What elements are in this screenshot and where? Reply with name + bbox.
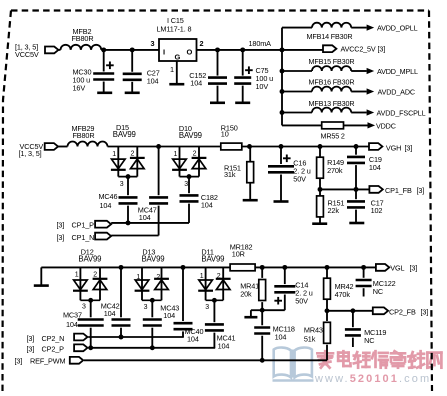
svg-text:3: 3 — [205, 304, 209, 311]
svg-text:104: 104 — [66, 320, 78, 329]
diode D12 — [73, 248, 107, 311]
capacitor MC41 — [205, 324, 236, 350]
wire MR55 to arrow — [344, 124, 368, 126]
capacitor C152 — [189, 50, 227, 103]
svg-text:2: 2 — [217, 273, 221, 280]
connector VCC5V (top) — [45, 47, 58, 54]
connector AVCC2_5V — [323, 45, 385, 54]
junction MFB13 — [280, 110, 285, 115]
connector CP1_N — [57, 233, 112, 242]
capacitor C17 — [347, 189, 384, 223]
capacitor MC118 — [254, 324, 295, 341]
svg-text:AVDD_FSCPLL: AVDD_FSCPLL — [377, 109, 426, 118]
svg-text:1: 1 — [136, 274, 140, 281]
junction C75 — [240, 47, 245, 52]
arrow AVDD_MPLL — [367, 67, 418, 76]
svg-text:MR55 2: MR55 2 — [321, 131, 345, 140]
svg-text:BAV99: BAV99 — [78, 255, 101, 264]
connector CP1_P — [57, 221, 112, 230]
arrow AVDD_ADC — [367, 88, 415, 97]
wire branch AVDD_FSCPLL — [282, 112, 312, 114]
wire bus to AVCC2_5V — [282, 49, 323, 51]
svg-text:AVDD_ADC: AVDD_ADC — [378, 88, 415, 97]
diode D15 — [111, 123, 145, 188]
svg-text:104: 104 — [104, 309, 116, 318]
wire rail to MC42 — [120, 267, 122, 317]
svg-text:10: 10 — [221, 129, 229, 138]
svg-text:FB80R: FB80R — [72, 34, 94, 43]
svg-text:104: 104 — [190, 78, 202, 87]
svg-text:O: O — [187, 48, 193, 57]
junction MFB16 — [280, 89, 285, 94]
connector REF_PWM — [15, 357, 84, 366]
svg-text:AVDD_OPLL: AVDD_OPLL — [377, 24, 418, 33]
svg-text:104: 104 — [139, 213, 151, 222]
ground left — [34, 267, 49, 285]
junction MC119 top — [350, 308, 355, 313]
junction MC122 top — [361, 265, 366, 270]
wire MFB29 to R150 — [108, 146, 221, 148]
svg-text:2: 2 — [131, 150, 135, 157]
wire CP1_FB rail — [320, 188, 369, 190]
connector VGH — [369, 143, 412, 152]
capacitor MC30 — [73, 50, 115, 93]
capacitor MC47 — [138, 197, 168, 221]
capacitor MC46 — [99, 192, 138, 210]
wire R150 to VGH — [242, 146, 369, 148]
svg-text:50V: 50V — [293, 175, 306, 184]
svg-text:NC: NC — [373, 287, 383, 296]
wire MC47 to CP1_N — [158, 206, 160, 236]
inductor MFB2 — [61, 27, 102, 50]
junction C19-CP1_FB — [354, 187, 359, 192]
wire MC118 to bottom rail — [261, 336, 263, 361]
wire CP1_P rail — [111, 222, 189, 224]
svg-text:1: 1 — [112, 151, 116, 158]
wire D13 pin3 to MC43 — [151, 300, 153, 317]
svg-text:270k: 270k — [327, 166, 343, 175]
capacitor MC37 — [63, 310, 104, 329]
inductor MFB14 — [307, 23, 353, 41]
svg-text:AVDD_MPLL: AVDD_MPLL — [377, 67, 418, 76]
arrow AVDD_OPLL — [367, 24, 418, 33]
svg-text:MR43: MR43 — [304, 325, 323, 334]
svg-text:[3]: [3] — [417, 186, 425, 195]
junction R150 out — [247, 144, 252, 149]
label 180mA — [249, 39, 272, 48]
svg-text:VGL: VGL — [390, 263, 404, 272]
svg-text:[3]: [3] — [15, 357, 23, 366]
wire MR182 to VGL — [255, 266, 376, 268]
capacitor MC119 NC — [345, 311, 387, 347]
junction MC40 top — [181, 265, 186, 270]
wire tag to MFB29 — [58, 146, 67, 148]
wire tag to coil MFB2 — [58, 49, 60, 51]
capacitor MC122 NC — [356, 267, 396, 296]
svg-text:MFB14 FB30R: MFB14 FB30R — [307, 32, 353, 41]
connector VGL — [376, 263, 417, 272]
junction C14 top — [282, 265, 287, 270]
svg-text:2: 2 — [156, 274, 160, 281]
svg-text:3: 3 — [120, 181, 124, 188]
svg-text:1: 1 — [170, 65, 174, 74]
inductor MFB16 — [309, 78, 355, 92]
capacitor C16 — [268, 147, 311, 202]
op-amp U IC15 LM117-1.8 — [151, 16, 204, 74]
svg-text:16V: 16V — [73, 84, 86, 93]
arrow AVDD_FSCPLL — [367, 109, 426, 118]
wire IC15 out — [197, 49, 283, 51]
watermark 520101.com — [273, 348, 442, 385]
junction MR42-CP2_FB — [325, 308, 330, 313]
wire MFB14 to arrow — [351, 27, 366, 29]
svg-text:[1, 3, 5]: [1, 3, 5] — [19, 149, 42, 158]
junction MR42 top — [325, 265, 330, 270]
connector CP2_N — [27, 334, 88, 343]
wire branch AVDD_OPLL — [282, 27, 312, 29]
svg-text:104: 104 — [201, 200, 213, 209]
svg-text:3: 3 — [144, 304, 148, 311]
svg-text:[3]: [3] — [378, 45, 386, 54]
wire CP2_N rail — [88, 336, 121, 338]
resistor MR41 — [240, 267, 265, 310]
svg-text:CP1_P: CP1_P — [72, 221, 95, 230]
svg-text:50V: 50V — [295, 296, 308, 305]
svg-text:MC37: MC37 — [63, 310, 82, 319]
svg-text:[3]: [3] — [27, 344, 35, 353]
junction MC118-bottom — [260, 358, 265, 363]
junction R149 — [318, 144, 323, 149]
svg-text:AVCC2_5V: AVCC2_5V — [341, 45, 376, 54]
resistor MR42 — [324, 267, 354, 310]
diode D10 — [172, 124, 206, 188]
wire branch VDDC — [282, 124, 322, 126]
resistor MR55 — [321, 122, 345, 140]
svg-text:3: 3 — [151, 39, 155, 48]
svg-text:MFB16 FB30R: MFB16 FB30R — [309, 78, 355, 87]
wire branch AVDD_ADC — [282, 91, 312, 93]
svg-text:[3]: [3] — [27, 334, 35, 343]
svg-text:[3]: [3] — [57, 233, 65, 242]
junction MR41 bottom — [260, 308, 265, 313]
svg-text:[3]: [3] — [410, 263, 418, 272]
svg-text:FB80R: FB80R — [73, 131, 95, 140]
svg-text:104: 104 — [218, 341, 230, 350]
wire D11 pin3 to MC41 — [213, 300, 215, 322]
wire CP2_P rail — [88, 347, 152, 349]
svg-text:LM117-1. 8: LM117-1. 8 — [157, 25, 192, 34]
svg-text:1: 1 — [174, 151, 178, 158]
svg-text:REF_PWM: REF_PWM — [30, 357, 66, 366]
inductor MFB15 — [309, 57, 355, 71]
inductor MFB29 — [68, 124, 108, 147]
wire C182 to CP1_P corner — [188, 204, 190, 223]
svg-text:BAV99: BAV99 — [179, 131, 202, 140]
node VCC5V label (top) — [15, 43, 39, 60]
svg-text:104: 104 — [163, 311, 175, 320]
capacitor MC40 — [174, 323, 204, 343]
capacitor C27 — [123, 50, 160, 93]
resistor R151 31k — [224, 147, 258, 201]
resistor MR43 — [304, 311, 331, 361]
capacitor MC43 — [143, 303, 179, 325]
wire MFB16 to arrow — [351, 91, 366, 93]
svg-text:MFB15 FB30R: MFB15 FB30R — [309, 57, 355, 66]
wire MC42 to CP2_N — [120, 328, 122, 337]
wire MC37 to CP2_P — [90, 328, 92, 348]
junction bus-main — [280, 47, 285, 52]
svg-text:10V: 10V — [256, 82, 269, 91]
wire output bus vertical — [281, 28, 283, 126]
wire REF_PWM rail — [84, 359, 327, 361]
junction C152 — [215, 47, 220, 52]
svg-text:VDDC: VDDC — [376, 122, 396, 131]
junction MC43-CP2_P — [150, 345, 155, 350]
junction C16 — [279, 144, 284, 149]
svg-text:2: 2 — [93, 272, 97, 279]
svg-text:CP1_FB: CP1_FB — [385, 186, 412, 195]
connector VCC5V (mid) — [45, 143, 58, 150]
wire MFB15 to arrow — [351, 70, 366, 72]
svg-text:180mA: 180mA — [249, 39, 272, 48]
svg-text:10R: 10R — [232, 249, 245, 258]
svg-text:20k: 20k — [240, 289, 252, 298]
wire D10 pin3 to C182 — [188, 177, 190, 194]
wire D15 pin3 to MC46 — [127, 177, 129, 196]
wire MC40 to CP2_N corner — [121, 331, 184, 337]
svg-text:51k: 51k — [304, 334, 316, 343]
svg-text:CP2_FB: CP2_FB — [389, 307, 416, 316]
connector CP1_FB — [369, 186, 424, 195]
capacitor C182 — [180, 193, 218, 210]
wire CP2_FB rail — [327, 310, 373, 312]
ground MR41 — [244, 316, 257, 319]
svg-text:www.520101.com: www.520101.com — [314, 373, 431, 385]
resistor R151 22k — [312, 189, 344, 223]
svg-text:CP2_N: CP2_N — [42, 334, 65, 343]
junction MFB15 — [280, 69, 285, 74]
svg-text:BAV99: BAV99 — [113, 130, 136, 139]
wire MC41 to CP2_P corner — [152, 333, 215, 348]
capacitor C19 — [347, 147, 382, 190]
svg-text:BAV99: BAV99 — [201, 255, 224, 264]
resistor R149 — [317, 147, 344, 190]
capacitor C75 — [234, 50, 273, 103]
wire main to MC47 — [158, 147, 160, 196]
svg-text:22k: 22k — [328, 206, 340, 215]
capacitor MC42 — [101, 301, 131, 325]
junction MC47 top — [156, 144, 161, 149]
wire VGL rail left — [41, 266, 230, 268]
arrow VDDC — [368, 122, 396, 131]
svg-text:VGH: VGH — [386, 143, 401, 152]
svg-text:2: 2 — [200, 39, 204, 48]
svg-text:470k: 470k — [335, 290, 351, 299]
wire MR41-MC118 — [261, 310, 263, 325]
svg-text:[3]: [3] — [405, 143, 413, 152]
wire branch AVDD_MPLL — [282, 70, 312, 72]
junction C19 — [354, 144, 359, 149]
svg-text:104: 104 — [100, 201, 112, 210]
svg-text:CP2_P: CP2_P — [42, 344, 65, 353]
diode D11 — [198, 248, 230, 312]
junction MC46-CP1_P — [126, 220, 131, 225]
junction MC30 — [101, 47, 106, 52]
svg-text:I: I — [163, 48, 165, 57]
svg-text:1: 1 — [200, 273, 204, 280]
svg-text:104: 104 — [187, 334, 199, 343]
node VCC5V label (mid) — [19, 142, 44, 158]
ground IC15 pin1 — [169, 83, 184, 86]
wire IC15 pin1 to ground — [176, 61, 178, 84]
svg-text:104: 104 — [147, 76, 159, 85]
svg-text:[3]: [3] — [421, 307, 429, 316]
svg-text:VCC5V: VCC5V — [15, 50, 39, 59]
svg-text:104: 104 — [369, 163, 381, 172]
connector CP2_FB — [373, 307, 428, 316]
svg-text:31k: 31k — [224, 170, 236, 179]
svg-text:G: G — [175, 53, 181, 62]
svg-text:BAV99: BAV99 — [142, 255, 165, 264]
svg-text:1: 1 — [75, 272, 79, 279]
svg-text:NC: NC — [364, 336, 374, 345]
junction R149-CP1_FB — [318, 187, 323, 192]
svg-text:I C15: I C15 — [167, 16, 184, 25]
resistor MR182 — [230, 242, 255, 270]
svg-text:CP1_N: CP1_N — [72, 233, 95, 242]
junction C27 — [130, 47, 135, 52]
wire rail to MC40 — [182, 267, 184, 321]
connector CP2_P — [27, 344, 88, 353]
resistor R150 — [221, 123, 242, 150]
junction MC42 top — [119, 265, 124, 270]
wire MR41 gnd stub — [251, 310, 262, 316]
capacitor C14 — [262, 267, 313, 310]
wire MFB2 to IC15 input — [101, 49, 159, 51]
wire CP1_N rail — [111, 235, 158, 237]
junction MC37-CP2_P — [88, 345, 93, 350]
inductor MFB13 — [309, 99, 355, 113]
junction MR41 top — [260, 265, 265, 270]
svg-text:MFB13 FB30R: MFB13 FB30R — [309, 99, 355, 108]
junction MC42-CP2_N — [119, 335, 124, 340]
svg-text:[3]: [3] — [57, 221, 65, 230]
svg-text:104: 104 — [275, 332, 287, 341]
svg-text:3: 3 — [184, 181, 188, 188]
wire MC43 to CP2_P — [151, 328, 153, 348]
wire D12 pin3 to MC37 — [90, 300, 92, 317]
wire MFB13 to arrow — [351, 112, 366, 114]
svg-text:MC46: MC46 — [99, 192, 118, 201]
svg-text:2: 2 — [193, 150, 197, 157]
svg-text:102: 102 — [371, 206, 383, 215]
svg-text:3: 3 — [82, 304, 86, 311]
wire MC46 to CP1_P — [127, 206, 129, 223]
diode D13 — [135, 248, 169, 312]
